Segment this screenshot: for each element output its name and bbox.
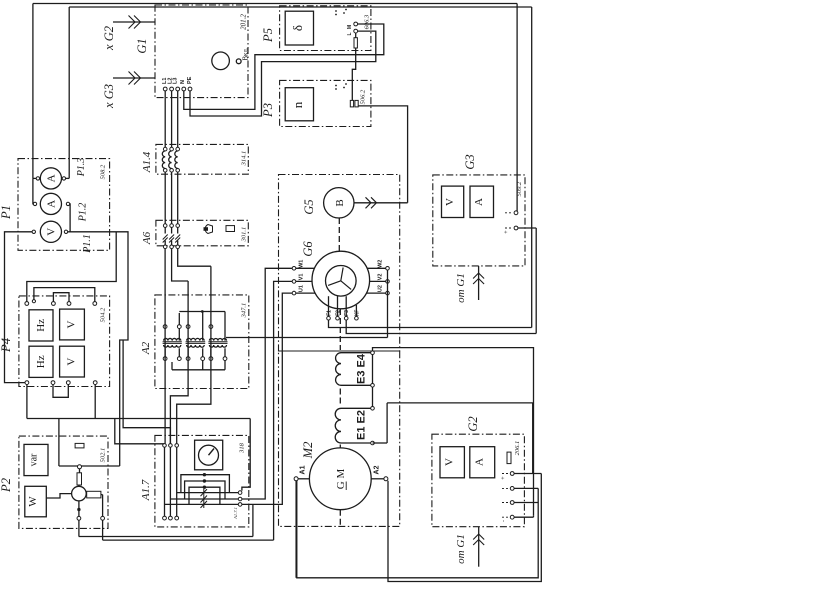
svg-text:A: A <box>46 174 58 182</box>
svg-text:504.2: 504.2 <box>100 307 107 322</box>
svg-text:V: V <box>66 320 78 328</box>
svg-text:508.2: 508.2 <box>100 164 107 179</box>
svg-text:606.3: 606.3 <box>364 14 371 29</box>
svg-text:A6: A6 <box>141 231 153 245</box>
svg-text:KF: KF <box>354 310 360 317</box>
svg-text:B: B <box>334 199 346 206</box>
svg-text:V: V <box>444 458 456 466</box>
svg-text:A: A <box>473 198 485 206</box>
svg-text:G1: G1 <box>135 38 149 53</box>
svg-text:G5: G5 <box>302 199 316 214</box>
svg-text:A: A <box>46 200 58 208</box>
svg-text:N: N <box>180 80 186 84</box>
svg-text:201.2: 201.2 <box>240 14 248 30</box>
svg-text:P3: P3 <box>261 103 275 118</box>
svg-text:от G1: от G1 <box>455 534 467 564</box>
svg-text:314.1: 314.1 <box>241 151 248 167</box>
svg-text:V: V <box>46 228 58 236</box>
svg-text:206.1: 206.1 <box>514 441 521 456</box>
svg-text:Hz: Hz <box>35 319 47 332</box>
svg-text:A1.7.1: A1.7.1 <box>233 507 238 520</box>
svg-text:var: var <box>29 453 40 466</box>
svg-text:Hz: Hz <box>35 355 47 368</box>
svg-text:x G2: x G2 <box>102 26 116 51</box>
svg-text:E3 E4: E3 E4 <box>356 353 368 384</box>
svg-text:A2: A2 <box>140 341 152 355</box>
svg-text:301.1: 301.1 <box>241 227 248 243</box>
svg-text:G6: G6 <box>301 241 315 257</box>
svg-text:n: n <box>290 101 305 108</box>
svg-text:G3: G3 <box>463 154 477 169</box>
svg-text:A1.4: A1.4 <box>141 151 153 173</box>
svg-text:347.1: 347.1 <box>241 303 248 319</box>
svg-text:P1.3: P1.3 <box>76 158 87 178</box>
svg-text:Вкл.: Вкл. <box>242 47 250 61</box>
svg-text:318: 318 <box>239 442 246 454</box>
svg-text:P1.2: P1.2 <box>78 203 89 223</box>
svg-text:P1.1: P1.1 <box>82 234 93 254</box>
svg-text:P2: P2 <box>0 478 13 493</box>
svg-text:δ: δ <box>290 25 305 31</box>
svg-text:U1: U1 <box>299 285 305 292</box>
svg-text:G M: G M <box>335 469 347 490</box>
svg-text:A1.7: A1.7 <box>140 479 152 501</box>
svg-text:W1: W1 <box>299 260 305 268</box>
svg-text:506.2: 506.2 <box>360 89 367 104</box>
svg-text:A: A <box>474 458 486 466</box>
svg-text:A2: A2 <box>374 465 381 474</box>
svg-text:-: - <box>501 520 507 522</box>
svg-text:P5: P5 <box>261 28 275 43</box>
svg-text:W2: W2 <box>378 260 384 268</box>
svg-text:W: W <box>27 496 39 507</box>
svg-text:L: L <box>347 32 353 35</box>
svg-text:F1: F1 <box>327 310 333 316</box>
svg-text:G2: G2 <box>466 416 480 431</box>
svg-text:U2: U2 <box>378 285 384 292</box>
svg-text:509.2: 509.2 <box>516 181 523 196</box>
svg-text:P1: P1 <box>0 205 13 220</box>
svg-text:502.1: 502.1 <box>100 448 107 463</box>
svg-text:E1 E2: E1 E2 <box>356 410 368 440</box>
svg-text:F3: F3 <box>344 310 350 316</box>
svg-text:V2: V2 <box>378 274 384 281</box>
svg-text:V: V <box>66 358 78 366</box>
svg-text:PE: PE <box>187 76 193 84</box>
svg-text:V1: V1 <box>299 274 305 281</box>
svg-text:от G1: от G1 <box>455 273 467 303</box>
svg-text:L3: L3 <box>173 78 179 84</box>
svg-text:M2: M2 <box>301 442 315 460</box>
svg-text:P4: P4 <box>0 338 13 353</box>
svg-text:x G3: x G3 <box>102 84 116 109</box>
svg-text:V: V <box>444 198 456 206</box>
svg-text:M: M <box>347 25 353 29</box>
svg-text:A1: A1 <box>300 465 307 474</box>
